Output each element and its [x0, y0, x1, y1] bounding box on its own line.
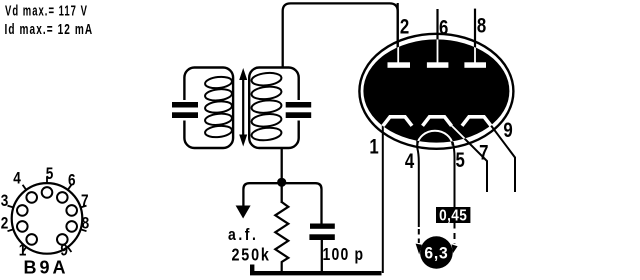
socket pin number 6 — [68, 171, 76, 190]
socket pin number 1 — [19, 241, 27, 260]
wire from secondary bottom to junction — [281, 148, 283, 182]
pin label 1 — [369, 136, 379, 159]
anode bar pin 8 — [464, 62, 486, 68]
pin 4 arrowhead into 6,3 — [416, 244, 422, 255]
tube pin 1 lead — [382, 126, 384, 274]
svg-text:1: 1 — [369, 136, 379, 159]
anode bar pin 2 — [388, 62, 411, 68]
coil L1 — [204, 76, 232, 139]
svg-text:5: 5 — [456, 149, 466, 172]
pin label 8 — [477, 15, 486, 38]
label Vd max — [5, 2, 88, 19]
tube pin 2 lead — [397, 3, 399, 63]
ground bus — [252, 265, 381, 274]
capacitor C3 plates 100p — [310, 224, 335, 229]
svg-text:8: 8 — [82, 214, 90, 233]
svg-text:4: 4 — [13, 169, 21, 188]
svg-text:8: 8 — [477, 15, 486, 38]
capacitor C2 plates — [286, 102, 312, 108]
socket pin number 8 — [82, 214, 90, 233]
socket pin number 5 — [46, 165, 54, 184]
svg-text:6,3: 6,3 — [424, 244, 448, 262]
pin label 7 — [479, 142, 488, 165]
socket B9A outline — [12, 183, 83, 254]
wire junction to a.f. branch — [243, 183, 281, 206]
chevron electrode pin 9 — [462, 117, 491, 126]
chevron electrode middle — [423, 117, 452, 126]
tube envelope outer ring — [359, 34, 513, 149]
tube pin 9 lead — [491, 126, 515, 193]
tuning arrow between coils — [239, 68, 247, 147]
anode bar pin 6 — [427, 62, 449, 68]
label 250k — [232, 246, 271, 265]
tube pin 4 lead — [417, 140, 419, 227]
capacitor C1 plates — [172, 102, 198, 108]
value circle 6,3 — [420, 236, 453, 269]
label Id max — [5, 21, 94, 37]
socket pin holes — [17, 187, 77, 245]
white interior leads — [383, 36, 487, 161]
transformer T1 primary loop — [184, 68, 233, 149]
socket pin number 2 — [1, 214, 9, 233]
socket pin number 4 — [13, 169, 21, 188]
value box 0,45 — [436, 207, 470, 223]
socket label B9A — [23, 258, 68, 278]
svg-text:2: 2 — [400, 16, 409, 39]
label a.f. — [228, 226, 258, 244]
pin label 5 — [456, 149, 466, 172]
capacitor gap in secondary loop — [294, 100, 303, 121]
tube pin 6 lead — [436, 9, 438, 63]
wire top from transformer to pin 2 — [283, 3, 398, 67]
pin label 4 — [405, 150, 415, 173]
svg-text:6: 6 — [439, 17, 448, 40]
chevron electrode pin 1 — [383, 117, 412, 126]
svg-text:4: 4 — [405, 150, 415, 173]
svg-text:7: 7 — [479, 142, 488, 165]
pin label 9 — [503, 119, 512, 142]
label 100p — [323, 246, 365, 265]
svg-text:3: 3 — [1, 192, 9, 211]
resistor R1 250k — [275, 202, 288, 272]
svg-text:2: 2 — [1, 214, 9, 233]
svg-text:Id max.= 12 mA: Id max.= 12 mA — [5, 21, 94, 37]
socket ticks — [8, 177, 87, 252]
socket pin number 3 — [1, 192, 9, 211]
socket pin number 7 — [81, 192, 89, 211]
pin label 6 — [439, 17, 448, 40]
tube pin 5 lead — [453, 142, 455, 208]
tube pin 8 lead — [474, 9, 476, 63]
junction node — [277, 178, 286, 187]
svg-text:a.f.: a.f. — [228, 226, 258, 244]
pin label 2 — [400, 16, 409, 39]
a.f. arrow — [236, 206, 251, 219]
svg-text:B9A: B9A — [23, 258, 68, 278]
capacitor C3 bottom lead — [321, 240, 323, 273]
pin 5 arrowhead into 6,3 — [452, 244, 458, 253]
heater arc white part — [417, 131, 453, 146]
transformer T1 secondary loop — [249, 68, 299, 149]
heater arc black part — [417, 131, 453, 146]
svg-text:5: 5 — [46, 165, 54, 184]
svg-text:0,45: 0,45 — [439, 208, 467, 225]
svg-text:Vd max.= 117 V: Vd max.= 117 V — [5, 2, 88, 19]
socket pin number 9 — [60, 241, 68, 260]
wire junction to capacitor branch — [282, 183, 322, 224]
tube pin 7 lead — [452, 126, 488, 193]
svg-text:250k: 250k — [232, 246, 271, 265]
svg-text:6: 6 — [68, 171, 76, 190]
coil L2 — [251, 72, 282, 142]
svg-text:9: 9 — [503, 119, 512, 142]
wire junction down to resistor — [281, 182, 283, 203]
tube envelope black fill — [363, 39, 509, 142]
capacitor gap in primary loop — [180, 100, 189, 121]
svg-text:100 p: 100 p — [323, 246, 365, 265]
svg-text:7: 7 — [81, 192, 89, 211]
